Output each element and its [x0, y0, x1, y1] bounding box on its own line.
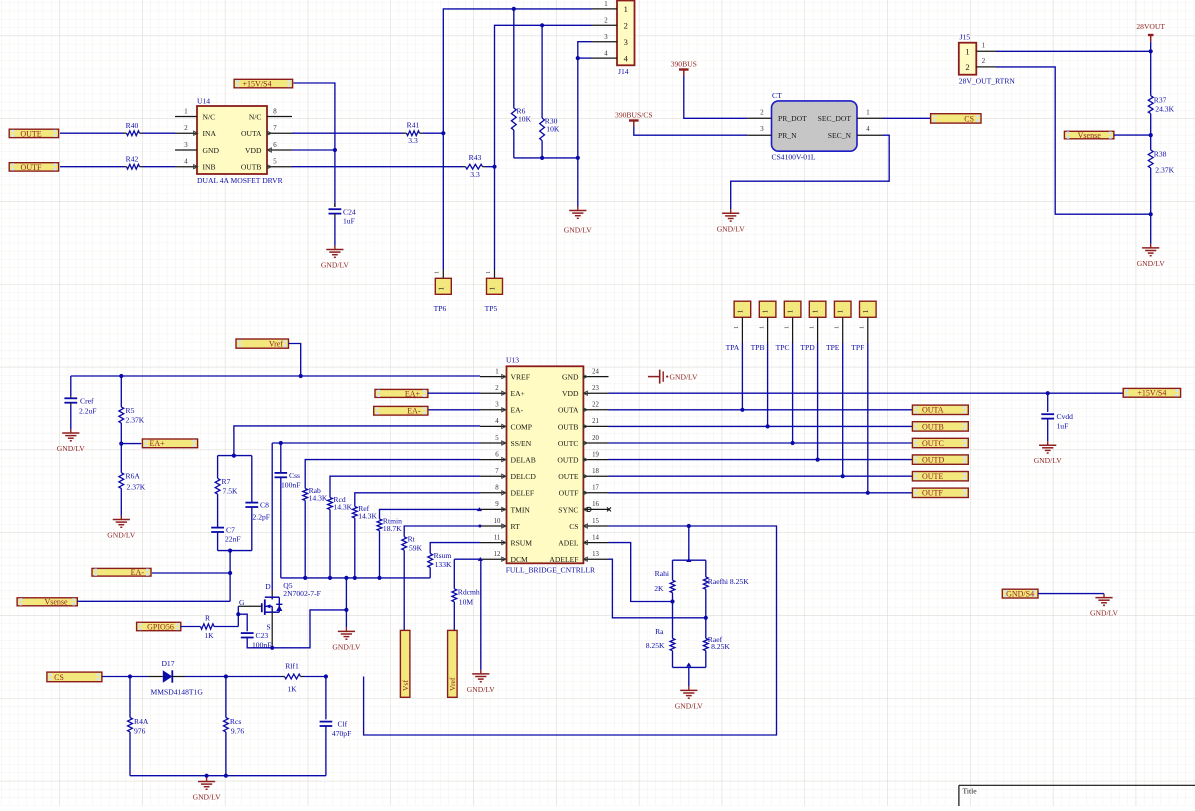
wire U13 OUTE pin 18	[609, 475, 913, 477]
node J14 pin1 / R6 junction	[512, 7, 516, 11]
wire J14 pin4 to ground	[578, 57, 592, 59]
node gnd stub junction	[205, 774, 209, 778]
svg-text:9.76: 9.76	[231, 727, 244, 736]
wire Rlf1 to Clf	[301, 676, 326, 678]
capacitor Clf 470pF	[320, 720, 352, 739]
node gnd rail junction	[353, 576, 357, 580]
ground GND/LV under CT	[717, 209, 746, 233]
node gate/C23 junction	[236, 612, 240, 616]
port CS (top)	[931, 114, 981, 124]
svg-text:1: 1	[965, 47, 969, 57]
wire U13 RT pin 10	[404, 526, 480, 537]
svg-text:GND/LV: GND/LV	[332, 642, 361, 651]
svg-text:7.5K: 7.5K	[223, 487, 238, 496]
J15 pins 1-2	[976, 43, 996, 67]
svg-text:Cvdd: Cvdd	[1057, 412, 1074, 421]
port GPIO56	[137, 622, 181, 631]
svg-text:OUTE: OUTE	[20, 129, 41, 138]
wire U13 OUTA pin 22	[609, 409, 913, 411]
wire gate node	[237, 606, 239, 626]
svg-text:EA-: EA-	[511, 406, 524, 415]
node ADEL junction	[670, 599, 674, 603]
svg-text:SEC_N: SEC_N	[828, 131, 852, 140]
svg-text:1: 1	[808, 326, 815, 329]
testpoint TPB	[751, 301, 776, 352]
wire U13 ADEL pin 14	[609, 543, 673, 602]
node divider top mark	[686, 558, 691, 562]
wire divider top rail	[673, 559, 706, 561]
svg-text:CS: CS	[569, 522, 578, 531]
ground GND/LV under C24	[321, 246, 350, 270]
power port 28VOUT	[1136, 22, 1165, 42]
svg-text:TPD: TPD	[800, 343, 815, 352]
U14 pins 1-8	[175, 108, 292, 169]
wire Rtmin to gnd rail	[379, 531, 381, 578]
svg-text:GND/LV: GND/LV	[1090, 609, 1119, 618]
port EA+ (divider)	[142, 439, 197, 448]
wire J15 pin2 return	[996, 67, 1151, 214]
svg-text:OUTB: OUTB	[922, 422, 944, 431]
svg-text:7: 7	[273, 125, 277, 132]
ground GND/LV under R6A	[107, 516, 136, 540]
node R41/TP6 junction	[441, 131, 445, 135]
resistor Rsum 133K	[428, 551, 452, 569]
svg-text:Css: Css	[289, 471, 300, 480]
svg-text:VDD: VDD	[562, 389, 579, 398]
node gnd rail junction	[377, 576, 381, 580]
svg-text:20: 20	[592, 435, 599, 442]
resistor R43 3.3	[466, 153, 483, 179]
svg-text:1: 1	[762, 309, 770, 313]
wire U14 OUTA pin 7	[292, 132, 407, 134]
wire R6 to gnd rail	[513, 130, 515, 158]
ground GND/LV under Q5	[332, 627, 361, 651]
resistor Rtmin 18.7K	[377, 517, 402, 534]
svg-text:8: 8	[273, 108, 277, 115]
wire U13 DCM pin 12	[454, 558, 480, 560]
port OUTF	[912, 488, 968, 498]
capacitor C8 2.2pF	[245, 501, 270, 522]
svg-text:2: 2	[184, 125, 188, 132]
svg-text:VDD: VDD	[245, 146, 262, 155]
wire R38 to ground	[1150, 168, 1152, 244]
svg-text:24.3K: 24.3K	[1155, 105, 1174, 114]
svg-text:DCM: DCM	[511, 555, 529, 564]
no-connect SYNC pin 16	[587, 507, 611, 511]
svg-text:390BUS/CS: 390BUS/CS	[615, 110, 653, 119]
svg-text:2: 2	[965, 62, 969, 72]
wire Rahi to mid	[672, 593, 674, 639]
testpoint TP5	[485, 270, 503, 314]
capacitor Cvdd 1uF	[1041, 412, 1073, 431]
svg-text:976: 976	[134, 727, 146, 736]
svg-text:19: 19	[592, 451, 599, 458]
svg-text:2.37K: 2.37K	[126, 416, 145, 425]
svg-text:GND/LV: GND/LV	[107, 531, 136, 540]
svg-text:16: 16	[592, 501, 599, 508]
svg-text:1: 1	[866, 109, 869, 116]
wire Css drop	[280, 443, 282, 473]
resistor R30 10K	[540, 117, 560, 141]
svg-text:14.3K: 14.3K	[358, 512, 377, 521]
svg-text:R41: R41	[407, 121, 420, 130]
svg-text:J14: J14	[618, 67, 629, 76]
svg-text:RSUM: RSUM	[511, 539, 533, 548]
resistor Rlf1 1K	[285, 662, 301, 694]
wire VREF row	[71, 375, 480, 377]
wire EA- port to node	[152, 572, 230, 574]
wire C8 to bottom rail	[251, 507, 253, 551]
node Vsense junction	[1149, 133, 1153, 137]
wire DCM to Rdcmhi	[453, 559, 455, 589]
svg-text:R5: R5	[126, 406, 135, 415]
svg-text:Rahi: Rahi	[655, 569, 669, 578]
svg-text:10K: 10K	[518, 115, 532, 124]
svg-text:9: 9	[495, 501, 499, 508]
svg-text:DUAL 4A MOSFET DRVR: DUAL 4A MOSFET DRVR	[197, 176, 284, 185]
wire C23 to source rail	[247, 638, 272, 648]
svg-text:OUTD: OUTD	[922, 456, 944, 465]
svg-text:TPC: TPC	[776, 343, 790, 352]
node OUTA/TPA junction	[740, 408, 744, 412]
svg-text:INB: INB	[203, 163, 216, 172]
svg-text:PR_DOT: PR_DOT	[778, 114, 807, 123]
resistor Rahi 2K	[654, 569, 675, 593]
svg-text:OUTB: OUTB	[241, 163, 262, 172]
node CS/Rahi junction	[687, 524, 691, 528]
wire U13 CS pin 15	[364, 526, 777, 735]
wire Rcd to gnd rail	[329, 510, 331, 578]
node J15 pin1 junction	[1149, 49, 1153, 53]
svg-text:59K: 59K	[409, 543, 423, 552]
wire VDD +15V rail	[609, 392, 1124, 394]
svg-text:1: 1	[758, 326, 765, 329]
svg-text:1: 1	[862, 309, 870, 313]
U13 pins 1-24	[480, 368, 609, 561]
node DCM junction	[478, 557, 483, 561]
wire EA+ node to port	[121, 443, 141, 445]
svg-text:Vsense: Vsense	[1078, 131, 1102, 140]
svg-text:R37: R37	[1154, 96, 1167, 105]
svg-text:1: 1	[837, 309, 845, 313]
wire comp top rail	[218, 455, 252, 457]
wire EA+ to pin 2	[428, 392, 481, 394]
wire R41 to TP6 riser	[420, 132, 444, 134]
svg-text:C8: C8	[260, 501, 269, 510]
svg-text:133K: 133K	[435, 560, 452, 569]
svg-text:28V_OUT_RTRN: 28V_OUT_RTRN	[959, 77, 1016, 86]
capacitor Cref 2.2uF	[64, 397, 96, 416]
svg-text:OUTE: OUTE	[558, 472, 579, 481]
wire TPA to OUTA	[741, 343, 743, 410]
svg-text:GND: GND	[562, 373, 579, 382]
svg-text:1: 1	[437, 287, 445, 291]
svg-text:OUTE: OUTE	[922, 472, 943, 481]
wire J15 pin1	[996, 50, 1151, 52]
port OUTE	[9, 129, 58, 138]
svg-text:EA+: EA+	[150, 439, 166, 448]
connector J14 body	[617, 1, 635, 77]
ground GND/LV under Cvdd	[1034, 441, 1063, 465]
wire CS port to D17	[102, 676, 130, 678]
svg-text:C23: C23	[256, 631, 269, 640]
svg-text:Rt: Rt	[408, 534, 416, 543]
wire +15V/S4 to VDD rail	[294, 83, 335, 207]
svg-text:R6A: R6A	[126, 472, 141, 481]
wire top rail to Rahi	[672, 560, 674, 580]
svg-text:SEC_DOT: SEC_DOT	[818, 114, 852, 123]
svg-text:1: 1	[982, 43, 985, 50]
wire TPE to OUTE	[842, 343, 844, 476]
svg-text:3: 3	[760, 126, 764, 133]
power port +15V/S4 (right)	[1123, 388, 1180, 397]
svg-text:TP6: TP6	[434, 304, 447, 313]
resistor R40	[126, 121, 140, 135]
resistor Rt 59K	[402, 534, 423, 552]
wire divider to ground	[688, 667, 690, 686]
svg-text:1K: 1K	[204, 631, 214, 640]
node Rcs gnd junction	[224, 774, 228, 778]
svg-text:6: 6	[273, 142, 277, 149]
wire Raef to bottom rail	[705, 651, 707, 668]
svg-text:R40: R40	[126, 121, 139, 130]
svg-text:1: 1	[184, 108, 187, 115]
resistor R42	[126, 155, 140, 169]
power port 390BUS	[671, 59, 697, 75]
wire CT SEC_N to ground	[731, 135, 890, 209]
svg-text:OUTF: OUTF	[922, 489, 943, 498]
svg-text:INA: INA	[203, 129, 217, 138]
wire TPF to OUTF	[867, 343, 869, 493]
wire Rab to gnd rail	[304, 501, 306, 578]
ground GND/LV under DCM	[467, 670, 496, 694]
svg-text:8.25K: 8.25K	[711, 642, 730, 651]
svg-text:1: 1	[787, 309, 795, 313]
svg-text:R42: R42	[126, 155, 139, 164]
resistor R38 2.37K	[1148, 150, 1174, 175]
wire Rsum to gnd rail	[429, 568, 431, 578]
wire J14 pin2 to R30	[541, 25, 543, 118]
node ADELEF junction	[704, 616, 708, 620]
wire C7 to bottom rail	[217, 532, 219, 551]
wire R4A drop	[129, 677, 131, 718]
svg-text:24: 24	[592, 368, 599, 375]
svg-text:TP5: TP5	[485, 304, 498, 313]
svg-text:ADELEF: ADELEF	[549, 555, 578, 564]
svg-text:ADEL: ADEL	[558, 539, 579, 548]
ground GND/LV under divider	[675, 686, 704, 710]
node gnd rail junction	[328, 576, 332, 580]
node EA- junction	[228, 571, 232, 575]
node VREF/Vref junction	[299, 374, 303, 378]
node OUTC/TPC junction	[791, 441, 795, 445]
wire Ra to bottom rail	[672, 651, 674, 668]
wire GND/S4 to ground	[1038, 593, 1104, 595]
svg-text:2: 2	[604, 18, 608, 25]
wire U13 ADELEF pin 13	[609, 559, 706, 618]
wire CS to divider top	[688, 526, 690, 560]
port Vsense (bottom)	[17, 598, 77, 607]
svg-text:2.37K: 2.37K	[127, 483, 146, 492]
svg-text:3.3: 3.3	[470, 170, 480, 179]
svg-text:28VOUT: 28VOUT	[1136, 22, 1165, 31]
ground GND/LV bottom	[193, 778, 222, 802]
svg-text:OUTD: OUTD	[557, 456, 579, 465]
wire U14 VDD pin 6	[292, 149, 335, 151]
wire COMP row	[234, 426, 480, 456]
svg-text:10M: 10M	[459, 598, 474, 607]
wire R30 to gnd rail	[541, 141, 543, 158]
svg-text:Clf: Clf	[338, 720, 348, 729]
wire U13 OUTF pin 17	[609, 492, 913, 494]
svg-text:5: 5	[273, 159, 277, 166]
wire R4A to gnd rail	[129, 732, 131, 776]
node OUTD/TPD junction	[816, 458, 820, 462]
svg-text:1: 1	[812, 309, 820, 313]
svg-text:1: 1	[485, 271, 492, 274]
svg-text:4: 4	[624, 53, 629, 63]
svg-text:G: G	[239, 598, 245, 607]
svg-text:17: 17	[592, 485, 599, 492]
ground GND/LV under R38	[1137, 244, 1166, 268]
node OUTB/TPB junction	[766, 424, 770, 428]
wire VREF to R5	[120, 376, 122, 407]
svg-text:11: 11	[494, 534, 501, 541]
svg-text:Raefhi 8.25K: Raefhi 8.25K	[708, 577, 749, 586]
port EA+ (U13)	[375, 389, 428, 398]
node source/C23 junction	[270, 646, 274, 650]
svg-text:1uF: 1uF	[1057, 422, 1069, 431]
svg-text:VREF: VREF	[511, 373, 530, 382]
svg-text:1uF: 1uF	[343, 217, 355, 226]
testpoint TPF	[851, 301, 876, 352]
power port +15V/S4 (left)	[234, 79, 293, 88]
resistor Ref 14.3K	[352, 504, 377, 521]
svg-text:Rlf1: Rlf1	[285, 662, 299, 671]
svg-text:GND: GND	[203, 146, 220, 155]
wire Raefhi to mid	[705, 589, 707, 638]
svg-text:C24: C24	[343, 208, 356, 217]
svg-text:10: 10	[494, 518, 501, 525]
svg-text:8.25K: 8.25K	[646, 641, 665, 650]
ground GND/LV under Cref	[57, 429, 86, 453]
node J14 pin4 junction	[576, 56, 580, 60]
svg-text:8: 8	[495, 485, 499, 492]
diode D17 MMSD4148T1G	[151, 659, 204, 697]
svg-text:1: 1	[624, 4, 628, 14]
node RT wire mark	[478, 525, 481, 528]
J14 pins 1-4	[592, 1, 618, 58]
wire gnd rail under J14	[514, 157, 578, 159]
svg-text:1: 1	[859, 326, 866, 329]
transistor Q5 2N7002-7-F	[239, 581, 321, 632]
wire divider bottom rail	[673, 666, 706, 668]
wire J14 pin1 to R6	[513, 9, 515, 108]
svg-text:100nF: 100nF	[281, 481, 300, 490]
port GND/S4	[1002, 589, 1038, 598]
svg-text:4: 4	[495, 418, 499, 425]
svg-text:GND/LV: GND/LV	[564, 226, 593, 235]
wire C24 to ground	[334, 218, 336, 246]
svg-text:2: 2	[624, 21, 628, 31]
svg-text:14.3K: 14.3K	[333, 503, 352, 512]
port OUTE	[912, 472, 968, 482]
svg-text:N/C: N/C	[249, 112, 262, 121]
svg-text:390BUS: 390BUS	[671, 59, 697, 68]
port Vref (vertical)	[448, 630, 458, 697]
wire U13 OUTD pin 19	[609, 459, 913, 461]
ground GND/LV under J14	[564, 207, 593, 235]
wire SS/EN to Q5 drain	[271, 443, 273, 597]
svg-text:2: 2	[760, 109, 764, 116]
svg-text:1: 1	[489, 287, 497, 291]
port EA- (U13)	[374, 406, 428, 415]
svg-text:D17: D17	[161, 659, 174, 668]
node EA+ divider junction	[119, 442, 123, 446]
svg-text:5: 5	[495, 435, 499, 442]
node gnd rail junction	[576, 156, 580, 160]
svg-text:1: 1	[495, 368, 498, 375]
wire to Rlf1	[226, 676, 285, 678]
wire rail to R7	[217, 456, 219, 479]
wire 390BUS/CS to CT PR_N	[634, 127, 748, 136]
svg-text:Rsum: Rsum	[434, 551, 452, 560]
svg-text:2.2pF: 2.2pF	[253, 513, 271, 522]
port OUTB	[912, 422, 968, 432]
svg-text:MMSD4148T1G: MMSD4148T1G	[151, 688, 204, 697]
port CS (bottom)	[47, 672, 102, 682]
wire U13 DELCD pin 7	[330, 476, 480, 497]
resistor R37 24.3K	[1148, 96, 1174, 114]
svg-text:D: D	[265, 582, 271, 591]
svg-text:DELCD: DELCD	[511, 472, 537, 481]
svg-text:+15V/S4: +15V/S4	[1137, 389, 1166, 398]
svg-text:470pF: 470pF	[332, 729, 351, 738]
svg-text:Cref: Cref	[80, 397, 94, 406]
svg-text:RT: RT	[511, 522, 521, 531]
svg-text:14.3K: 14.3K	[309, 494, 328, 503]
wire U13 DELAB pin 6	[305, 460, 480, 489]
svg-text:CT: CT	[772, 91, 782, 100]
wire CT SEC_DOT to CS port	[883, 117, 931, 119]
node COMP junction	[232, 454, 236, 458]
svg-text:PR_N: PR_N	[778, 131, 797, 140]
wire 28VOUT to R37	[1150, 42, 1152, 96]
svg-text:2: 2	[982, 58, 986, 65]
svg-text:C7: C7	[226, 526, 235, 535]
wire Rdcmhi to Vref port	[453, 602, 455, 631]
wire Q5 source	[271, 612, 273, 648]
wire Vsense to divider	[1114, 134, 1151, 136]
svg-text:CS: CS	[54, 673, 64, 682]
wire Rcs to gnd rail	[225, 732, 227, 776]
svg-text:6: 6	[495, 451, 499, 458]
svg-text:Vref: Vref	[448, 677, 457, 691]
svg-text:OUTF: OUTF	[559, 489, 579, 498]
node Cvdd junction	[1046, 391, 1050, 395]
resistor R5 2.37K	[119, 406, 145, 425]
CT pins 1-4	[747, 109, 882, 135]
wire Cvdd to ground	[1047, 419, 1049, 442]
svg-text:GND/LV: GND/LV	[1034, 456, 1063, 465]
port OUTA	[912, 405, 968, 415]
wire DCM to ground	[480, 559, 482, 670]
svg-text:Rdcmhi: Rdcmhi	[458, 588, 482, 597]
svg-text:23: 23	[592, 385, 599, 392]
wire Rcs drop	[225, 677, 227, 718]
capacitor Css 100nF	[275, 471, 301, 490]
wire EA+ node to R6A	[120, 444, 122, 473]
